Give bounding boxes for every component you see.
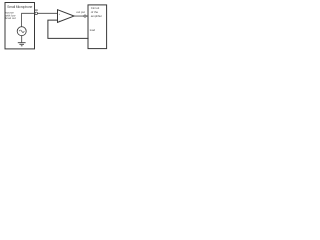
svg-text:load: load bbox=[90, 28, 96, 32]
svg-text:amplifier: amplifier bbox=[91, 14, 102, 18]
svg-text:-: - bbox=[59, 19, 60, 22]
output wire bbox=[74, 15, 88, 17]
AC source V1 bbox=[17, 27, 26, 36]
wire terminal to op-amp + input bbox=[35, 12, 58, 14]
wire op-amp - input to bottom bus and to load box bbox=[48, 20, 89, 38]
terminal node output bbox=[84, 15, 86, 17]
load box bbox=[88, 5, 107, 49]
svg-text:out put: out put bbox=[76, 10, 85, 14]
ground bbox=[18, 43, 26, 46]
svg-text:level out: level out bbox=[5, 16, 16, 20]
op-amp U1 bbox=[58, 10, 75, 23]
svg-text:Small Microphone: Small Microphone bbox=[7, 5, 32, 9]
wire source to ground bbox=[21, 36, 23, 43]
terminal node A bbox=[35, 12, 38, 15]
wire source to output terminal bbox=[22, 13, 35, 27]
microphone source box bbox=[5, 3, 35, 49]
tiny label above terminal A bbox=[35, 9, 38, 11]
